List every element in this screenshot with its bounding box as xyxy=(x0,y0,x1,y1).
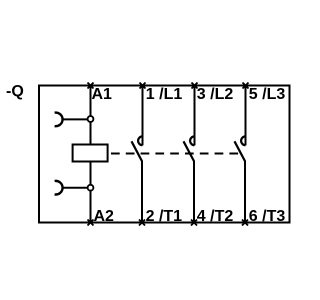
connection point marker at terminal 1/L1 xyxy=(140,83,146,89)
contactor outline box xyxy=(39,86,290,223)
svg-text:4 /T2: 4 /T2 xyxy=(197,208,234,225)
svg-text:5 /L3: 5 /L3 xyxy=(249,86,286,103)
coil terminal connector arc (upper) xyxy=(55,113,63,127)
pole 3: moving contact blade (NO contact) xyxy=(235,141,245,161)
svg-text:6 /T3: 6 /T3 xyxy=(249,208,286,225)
connection point marker at terminal 2/T1 xyxy=(139,220,145,226)
wire: coil branch vertical A1 (top border to coil) xyxy=(90,86,92,145)
svg-text:-Q: -Q xyxy=(6,83,24,100)
node junction circle on A2 wire xyxy=(88,185,94,191)
connection point marker at terminal 4/T2 xyxy=(191,220,197,226)
pole 1: wire from top border (terminal 1/L1) xyxy=(142,86,144,146)
pole 1: moving contact blade (NO contact) xyxy=(132,141,142,161)
pole 3: wire to bottom border (terminal 6/T3) xyxy=(244,161,246,223)
pole 2: moving contact blade (NO contact) xyxy=(184,141,194,161)
pole 2: fixed contact bowl xyxy=(190,136,194,145)
wire: lower connector to node xyxy=(63,187,88,189)
svg-text:A2: A2 xyxy=(94,208,115,225)
svg-text:2 /T1: 2 /T1 xyxy=(146,208,183,225)
connection point marker at terminal A1 xyxy=(88,83,94,89)
svg-text:1 /L1: 1 /L1 xyxy=(146,86,183,103)
coil terminal connector arc (lower) xyxy=(55,181,63,195)
pole 2: wire from top border (terminal 3/L2) xyxy=(194,86,196,146)
pole 2: wire to bottom border (terminal 4/T2) xyxy=(193,161,195,223)
pole 1: wire to bottom border (terminal 2/T1) xyxy=(141,161,143,223)
mechanical linkage dashed line xyxy=(111,153,242,155)
pole 1: fixed contact bowl xyxy=(138,136,142,145)
svg-text:A1: A1 xyxy=(92,86,113,103)
connection point marker at terminal A2 xyxy=(88,220,94,226)
wire: upper connector to node xyxy=(63,118,88,120)
svg-text:3 /L2: 3 /L2 xyxy=(197,86,234,103)
node junction circle on A1 wire xyxy=(88,116,94,122)
wire: coil branch vertical A2 (coil to bottom border) xyxy=(90,162,92,223)
coil -Q (operating coil A1-A2) xyxy=(73,145,108,162)
pole 3: wire from top border (terminal 5/L3) xyxy=(245,86,247,146)
connection point marker at terminal 3/L2 xyxy=(192,83,198,89)
pole 3: fixed contact bowl xyxy=(241,136,245,145)
connection point marker at terminal 5/L3 xyxy=(243,83,249,89)
connection point marker at terminal 6/T3 xyxy=(242,220,248,226)
